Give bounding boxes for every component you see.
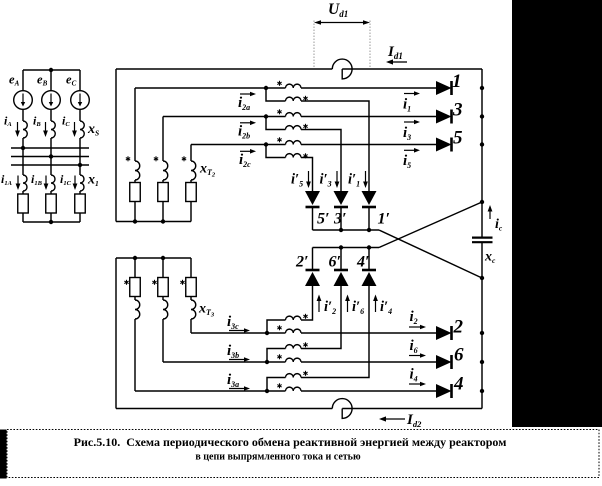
- primary winding box xT3: [130, 278, 141, 297]
- wire secondary row b left: [163, 116, 286, 118]
- arrow Id1: [386, 59, 407, 64]
- node diode 2: [480, 331, 484, 335]
- wire lower row a left: [135, 390, 286, 392]
- bus bar 1: [11, 147, 89, 149]
- wire lower transformer top bus: [116, 257, 191, 259]
- diode 5': [305, 191, 320, 207]
- arrow i'4: [373, 295, 378, 313]
- wire secondary row a left: [135, 87, 286, 89]
- wire load box to bottom: [79, 213, 81, 222]
- wire bottom dc link left: [116, 408, 332, 410]
- wire to load box: [79, 191, 81, 194]
- polarity mark 2c offset: [303, 153, 307, 158]
- arrow iA: [15, 122, 20, 137]
- arrow i1C: [73, 176, 78, 191]
- wire box to bus: [190, 202, 192, 222]
- arrow i'2: [317, 295, 322, 313]
- primary winding coil xT3: [163, 300, 168, 319]
- wire outer left vertical (lower): [115, 258, 117, 409]
- wire lower row c left: [191, 332, 286, 334]
- diode 2: [436, 326, 452, 340]
- wire primary branch bottom: [134, 319, 136, 391]
- secondary winding 2c (row): [286, 141, 302, 145]
- arrow iB: [43, 122, 48, 137]
- wire diagonal lower-rail to capacitor top: [379, 202, 482, 248]
- svg-text:5: 5: [453, 128, 463, 149]
- polarity mark 2a row: [277, 81, 281, 86]
- inductor x1 phase A: [23, 175, 27, 191]
- wire lower row b left: [163, 361, 286, 363]
- primary winding coil xT3: [191, 300, 196, 319]
- inductor xS phase C: [80, 121, 84, 138]
- wire top dc link left: [116, 68, 332, 70]
- node diode 3 cathode: [480, 114, 484, 118]
- wire diode 5' to upper rail: [312, 207, 314, 230]
- inductor x1 phase C: [80, 175, 84, 191]
- node lower secondary a: [265, 389, 269, 393]
- node bus A: [133, 219, 137, 223]
- node secondary a: [264, 86, 268, 90]
- vector arrow i4: [409, 382, 426, 387]
- node diode 4: [480, 389, 484, 393]
- wire bottom bus of source block: [23, 221, 80, 223]
- primary winding coil xT2: [191, 161, 196, 180]
- svg-text:6′: 6′: [329, 254, 342, 271]
- wire rail to diode 6': [340, 248, 342, 271]
- wire primary branch top: [190, 145, 192, 162]
- wire box to coil: [134, 297, 136, 301]
- polarity mark lower primary C: [180, 280, 184, 285]
- arrow i1A: [16, 176, 21, 191]
- polarity mark 2b row: [277, 109, 281, 114]
- wire secondary row c to diode: [301, 144, 436, 146]
- vector arrow i2a: [240, 92, 256, 97]
- wire phase through bus: [22, 138, 24, 175]
- capacitor xc: [472, 238, 493, 243]
- node phase B on bus 2: [49, 154, 53, 158]
- polarity mark 3c offset: [303, 314, 307, 319]
- secondary winding 3b (offset): [286, 345, 302, 349]
- secondary winding 2b (row): [286, 113, 302, 117]
- source eC: [71, 91, 90, 110]
- wire box to coil: [190, 297, 192, 301]
- wire diagonal upper-rail to capacitor bottom: [379, 230, 482, 278]
- vector arrow i1: [404, 91, 420, 96]
- wire phase B to source: [50, 70, 52, 91]
- node upper rail b: [339, 228, 343, 232]
- wire rail to diode 2': [312, 248, 314, 271]
- node lower secondary b: [265, 360, 269, 364]
- wire secondary row c left: [191, 144, 286, 146]
- svg-text:6: 6: [454, 345, 464, 366]
- polarity mark 3b row: [277, 354, 281, 359]
- primary winding box xT3: [158, 278, 169, 297]
- wire diode 1' to upper rail: [368, 207, 370, 230]
- node phase A on bus 1: [21, 146, 25, 150]
- wire sub-row a to bridge: [301, 101, 369, 191]
- wire top dc link right: [342, 68, 482, 70]
- node capacitor bottom: [480, 276, 484, 280]
- secondary winding 2b (offset): [286, 126, 302, 130]
- node lower bus B: [161, 256, 165, 260]
- wire sub-row b left: [266, 117, 286, 130]
- secondary winding 3a (offset): [286, 374, 302, 378]
- wire phase through bus: [50, 138, 52, 175]
- secondary winding 3a (row): [286, 387, 302, 391]
- wire sub-row c left: [266, 145, 286, 158]
- wire outer left vertical (upper): [115, 69, 117, 222]
- wire coil to box: [190, 180, 192, 183]
- arrow Id2: [379, 416, 405, 421]
- primary winding coil xT2: [135, 161, 140, 180]
- secondary winding 2a (row): [286, 84, 302, 88]
- svg-text:в цепи выпрямленного тока и се: в цепи выпрямленного тока и сетью: [195, 452, 361, 463]
- svg-text:2′: 2′: [295, 254, 309, 271]
- load box: [18, 194, 29, 213]
- secondary winding 3c (offset): [286, 316, 302, 320]
- wire primary branch top: [162, 117, 164, 162]
- node lower bus A: [133, 256, 137, 260]
- svg-text:1′: 1′: [378, 211, 391, 228]
- primary winding box xT3: [186, 278, 197, 297]
- svg-text:4: 4: [453, 374, 464, 395]
- wire bus to primary box: [162, 258, 164, 278]
- wire lower row a to diode: [301, 390, 436, 392]
- node bottom bus: [49, 220, 53, 224]
- wire lower sub-row c to bridge: [301, 286, 313, 320]
- node diode 6: [480, 360, 484, 364]
- arrow i3c: [229, 328, 250, 333]
- bus bar 2: [11, 156, 89, 158]
- vector arrow i3: [404, 120, 420, 125]
- wire to capacitor top: [481, 202, 483, 237]
- diode 2': [305, 270, 320, 286]
- node lower secondary c: [265, 331, 269, 335]
- wire sub-row a left: [266, 88, 286, 101]
- vector arrow i2c: [240, 149, 256, 154]
- wire lower row c to diode: [301, 332, 436, 334]
- polarity mark 2b offset: [303, 124, 307, 129]
- wire to load box: [22, 191, 24, 194]
- diode 4: [436, 384, 452, 398]
- wire lower rail: [313, 247, 380, 249]
- primary winding box xT2: [130, 183, 141, 202]
- arrow i3a: [229, 386, 250, 391]
- node upper rail a: [367, 228, 371, 232]
- wire sub-row c to bridge: [301, 158, 313, 192]
- secondary winding 3c (row): [286, 329, 302, 333]
- polarity mark lower primary B: [152, 280, 156, 285]
- polarity mark 3c row: [277, 325, 281, 330]
- polarity mark primary B: [154, 156, 158, 161]
- svg-text:3′: 3′: [333, 211, 347, 228]
- svg-text:4′: 4′: [356, 254, 370, 271]
- wire load box to bottom: [22, 213, 24, 222]
- source eA: [14, 91, 33, 110]
- node diode 1 cathode: [480, 86, 484, 90]
- arrow iC: [72, 122, 77, 137]
- wire primary branch bottom: [190, 319, 192, 333]
- wire sub-row b to bridge: [301, 130, 341, 192]
- wire bus to primary box: [190, 258, 192, 278]
- diode 4': [362, 270, 377, 286]
- wire to load box: [50, 191, 52, 194]
- diode 3': [334, 191, 349, 207]
- wire lower sub-row b: [267, 349, 286, 363]
- arrow i'3: [335, 171, 340, 188]
- polarity mark lower primary A: [124, 280, 128, 285]
- diode 3: [436, 110, 452, 124]
- svg-text:5′: 5′: [317, 211, 330, 228]
- node capacitor top: [480, 200, 484, 204]
- load box: [46, 194, 57, 213]
- svg-text:3: 3: [452, 100, 463, 121]
- dimension arrows Ud1: [314, 20, 370, 25]
- arrow i1B: [44, 176, 49, 191]
- wire primary branch top: [134, 88, 136, 161]
- primary winding box xT2: [186, 183, 197, 202]
- wire phase through bus: [79, 138, 81, 175]
- diode 6: [436, 355, 452, 369]
- primary winding coil xT2: [163, 161, 168, 180]
- wire upper rail: [313, 229, 380, 231]
- wire phase A below source: [22, 109, 24, 121]
- wire bus to primary box: [134, 258, 136, 278]
- node top bus / phase B junction: [49, 68, 53, 72]
- node lower rail b: [339, 245, 343, 249]
- polarity mark 3a offset: [303, 371, 307, 376]
- arrow i3b: [229, 357, 250, 362]
- wire right vertical lower: [481, 278, 483, 409]
- wire diode 3' to upper rail: [340, 207, 342, 230]
- wire lower sub-row b to bridge: [301, 286, 341, 349]
- arrow i'5: [306, 171, 311, 188]
- bus bar 3: [11, 164, 89, 166]
- arrow i'1: [363, 171, 368, 188]
- diode 1: [436, 81, 452, 95]
- inductor x1 phase B: [51, 175, 55, 191]
- wire lower sub-row a: [267, 378, 286, 392]
- wire bottom dc link right: [342, 408, 482, 410]
- wire box to coil: [162, 297, 164, 301]
- wire primary branch bottom: [162, 319, 164, 362]
- inductor xS phase B: [51, 121, 55, 138]
- wire load box to bottom: [50, 213, 52, 222]
- wire lower sub-row a to bridge: [301, 286, 369, 378]
- inductor xS phase A: [23, 121, 27, 138]
- diode 5: [436, 138, 452, 152]
- polarity mark 2a offset: [303, 96, 307, 101]
- dimension lines Ud1: [313, 21, 315, 69]
- polarity mark primary A: [126, 156, 130, 161]
- node bus B: [161, 219, 165, 223]
- wire top bus of source block: [23, 69, 80, 71]
- secondary winding 2a (offset): [286, 97, 302, 101]
- node phase C on bus 3: [78, 163, 82, 167]
- node lower rail a: [367, 245, 371, 249]
- wire coil to box: [134, 180, 136, 183]
- secondary winding 2c (offset): [286, 154, 302, 158]
- source eB: [42, 91, 61, 110]
- node secondary b: [264, 114, 268, 118]
- primary winding coil xT3: [135, 300, 140, 319]
- polarity mark 3b offset: [303, 342, 307, 347]
- diode 6': [334, 270, 349, 286]
- vector arrow i6: [409, 353, 426, 358]
- vector arrow i2b: [240, 121, 256, 126]
- wire phase B below source: [50, 109, 52, 121]
- wire lower sub-row c: [267, 320, 286, 333]
- wire phase C to source: [79, 70, 81, 91]
- node secondary c: [264, 142, 268, 146]
- polarity mark primary C: [182, 156, 186, 161]
- load box: [75, 194, 86, 213]
- wire secondary row a to diode: [301, 87, 436, 89]
- polarity mark 3a row: [277, 383, 281, 388]
- wire box to bus: [134, 202, 136, 222]
- wire secondary row b to diode: [301, 116, 436, 118]
- wire right vertical upper: [481, 69, 483, 202]
- polarity mark 2c row: [277, 137, 281, 142]
- svg-text:1: 1: [452, 71, 462, 92]
- wire phase C below source: [79, 109, 81, 121]
- vector arrow i2: [409, 325, 426, 330]
- vector arrow i5: [404, 148, 420, 153]
- wire phase A to source: [22, 70, 24, 91]
- secondary winding 3b (row): [286, 358, 302, 362]
- primary winding box xT2: [158, 183, 169, 202]
- svg-text:Рис.5.10. Схема периодическог: Рис.5.10. Схема периодического обмена ре…: [74, 435, 507, 449]
- wire lower row b to diode: [301, 361, 436, 363]
- node diode 5 cathode: [480, 142, 484, 146]
- svg-text:2: 2: [453, 317, 464, 338]
- wire upper transformer bottom bus: [116, 221, 191, 223]
- arrow ic: [488, 205, 493, 219]
- wire capacitor bottom: [481, 243, 483, 278]
- reactor loop bottom (dc link): [332, 399, 352, 419]
- wire box to bus: [162, 202, 164, 222]
- diode 1': [362, 191, 377, 207]
- wire rail to diode 4': [368, 248, 370, 271]
- arrow i'6: [345, 295, 350, 313]
- reactor loop top (dc link): [332, 59, 352, 79]
- wire coil to box: [162, 180, 164, 183]
